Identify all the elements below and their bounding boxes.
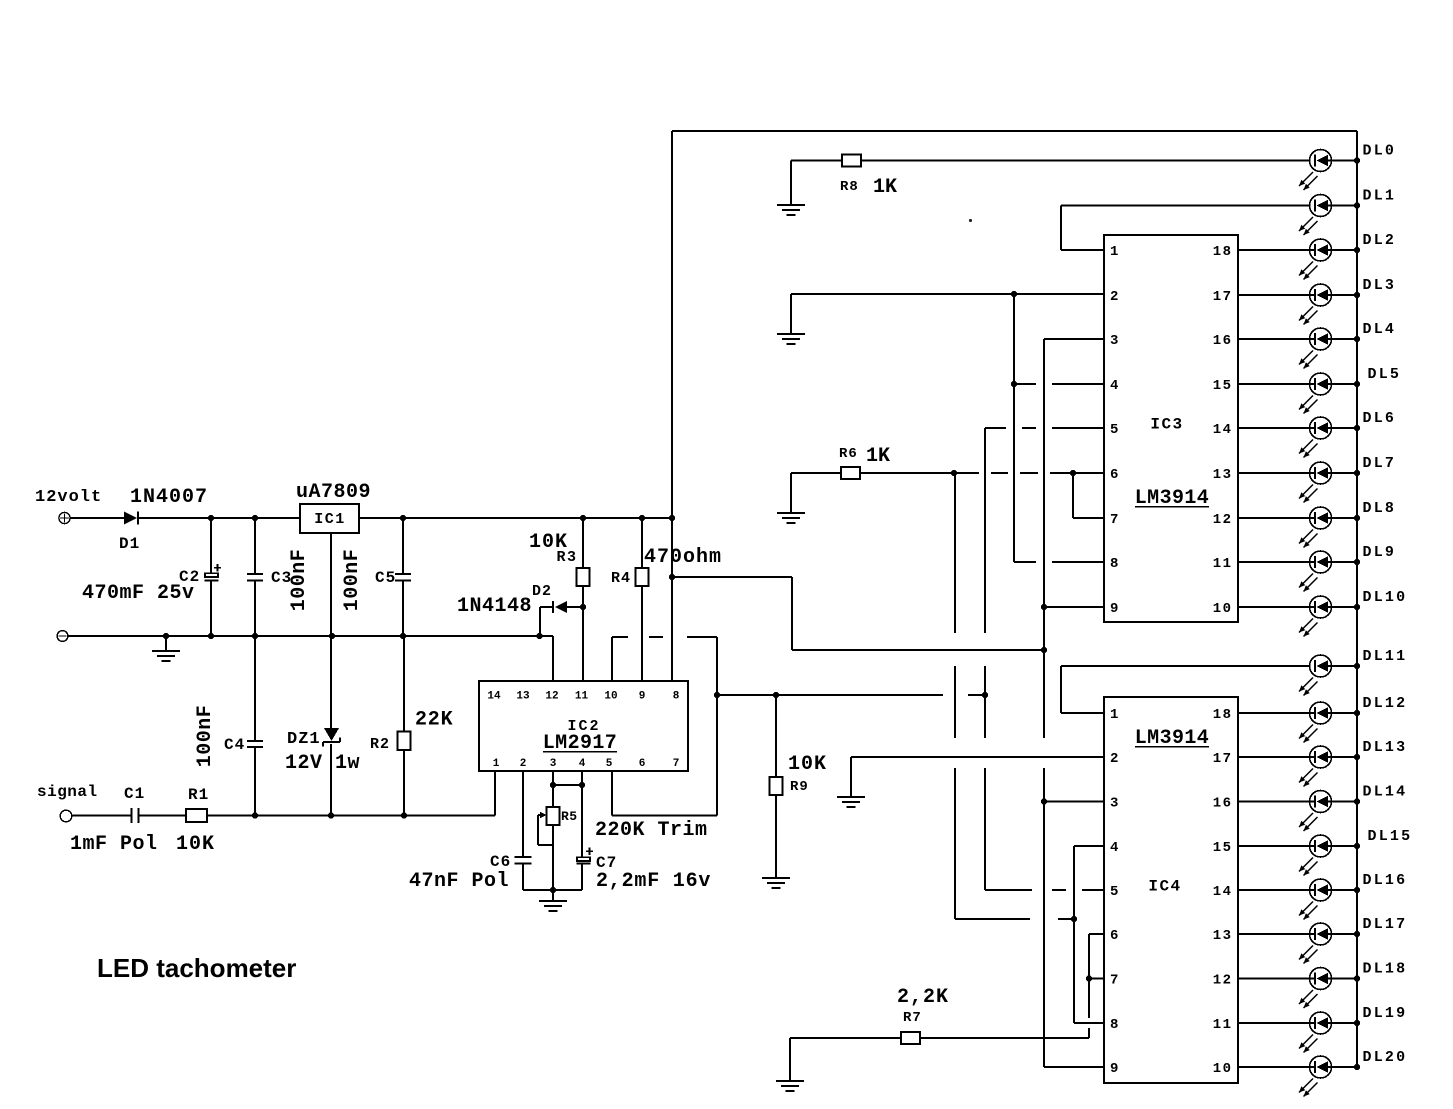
LED DL18 [1238,961,1407,1009]
svg-text:9: 9 [1110,601,1118,617]
zener diode DZ1 12V 1w [330,636,332,728]
svg-text:1N4007: 1N4007 [130,486,208,509]
svg-text:DL0: DL0 [1363,143,1397,160]
wire 0V ground rail [68,635,540,637]
svg-text:1: 1 [1110,707,1118,723]
node: R9 tap on signal wire [773,692,779,698]
svg-text:R9: R9 [790,779,809,795]
svg-text:D2: D2 [532,583,552,600]
svg-text:DL11: DL11 [1363,648,1408,665]
wire IC4 pin 9 (mode) [1044,1066,1104,1068]
capacitor C4 plates [247,741,263,747]
LED DL19 [1238,1005,1407,1053]
IC IC2 LM2917 body [479,681,688,771]
svg-text:3: 3 [550,758,557,770]
svg-text:1N4148: 1N4148 [457,595,532,618]
svg-text:R1: R1 [188,786,209,804]
svg-text:14: 14 [487,691,501,703]
capacitor C3 plates [247,574,263,581]
LED DL0 [1299,143,1396,191]
svg-text:100nF: 100nF [194,705,217,768]
svg-text:IC1: IC1 [314,511,346,528]
svg-text:6: 6 [1110,928,1118,944]
resistor R6 body [841,467,860,479]
wire C1 to R1 [139,815,186,817]
node: IC4 pin 3 junction on supply bus [1041,798,1047,804]
capacitor C2 470mF 25v electrolytic [210,518,212,573]
resistor R7 body [901,1032,920,1044]
svg-text:6: 6 [639,758,646,770]
ground symbol for IC4 pin 2 [837,797,865,807]
svg-text:10: 10 [1213,1061,1233,1077]
wire IC2 pin 12 stub [552,636,554,681]
node: +9V tap to LM3914 supply [669,574,675,580]
LED DL11 [1299,648,1407,696]
terminal 0V input [57,631,68,642]
svg-text:R6: R6 [839,446,858,462]
node: IC3 pin6 bus to IC4 pin4/pin8 junction [1071,916,1077,922]
wire IC4 pin 4 (RLO) [1074,845,1104,847]
svg-text:12: 12 [1213,973,1233,989]
svg-text:DL20: DL20 [1363,1049,1408,1066]
svg-text:12: 12 [545,691,558,703]
wire IC3 pin 1 to DL1 [1061,249,1104,251]
resistor R3 10K [582,518,584,568]
node: junctions on signal rail [252,812,258,818]
wire R8 to DL0 cathode [861,160,1310,162]
wire IC2 pin 3 to pin 4 bridge [553,784,582,786]
svg-text:100nF: 100nF [341,549,364,612]
ground symbol below IC2 filter [539,901,567,911]
capacitor C1 1mF Pol [132,808,139,823]
resistor R8 body [842,155,861,167]
svg-text:100nF: 100nF [288,549,311,612]
svg-text:14: 14 [1213,422,1233,438]
resistor R2 body [398,732,411,751]
svg-text:11: 11 [1213,556,1233,572]
resistor R9 10K [775,695,777,777]
wire R4 to IC2 pin 9 [641,586,643,681]
wire IC1 ground pin to 0V rail [330,533,332,636]
resistor R7 2,2K [789,1038,791,1081]
trimmer R5 body [547,807,560,825]
svg-text:5: 5 [606,758,613,770]
node: signal joins LM3914 input bus [982,692,988,698]
svg-text:DL4: DL4 [1363,321,1397,338]
resistor R2 22K [403,636,405,732]
wire link to IC4 pin4 and pin8 [955,918,1030,920]
svg-text:R5: R5 [561,809,578,824]
svg-text:220K Trim: 220K Trim [595,819,708,842]
ground symbol for IC3 pin 2 [777,334,805,344]
svg-text:signal: signal [37,783,98,801]
svg-text:DL7: DL7 [1363,455,1397,472]
svg-text:DL19: DL19 [1363,1005,1408,1022]
node: IC3 pin 2 junction on ground bus [1011,291,1017,297]
wire IC3 pin 7 to pin 6 [1072,473,1074,518]
wire bus: IC3 pin6 to IC4 pin4/pin8 [954,473,956,633]
wire IC4 pin 7 [1089,978,1104,980]
svg-text:DL3: DL3 [1363,277,1397,294]
svg-text:1: 1 [1110,244,1118,260]
svg-text:DL18: DL18 [1363,961,1408,978]
svg-text:2,2mF 16v: 2,2mF 16v [596,870,711,893]
svg-text:470mF 25v: 470mF 25v [82,582,195,605]
svg-text:DL15: DL15 [1368,828,1413,845]
svg-text:C4: C4 [224,736,245,754]
svg-text:DL5: DL5 [1368,366,1402,383]
regulator IC1 uA7809 [300,504,359,533]
svg-text:DL10: DL10 [1363,589,1408,606]
capacitor C6 plates [515,857,532,864]
svg-text:C5: C5 [375,569,396,587]
svg-text:13: 13 [516,691,530,703]
svg-text:1K: 1K [866,445,890,468]
svg-text:DL1: DL1 [1363,188,1397,205]
wire +9V feed to LM3914 supply bus [672,576,792,578]
svg-text:13: 13 [1213,467,1233,483]
resistor R1 body [186,809,207,822]
wire IC4 pin 1 to DL11 [1061,712,1104,714]
svg-text:10K: 10K [176,833,215,856]
svg-text:11: 11 [1213,1017,1233,1033]
diode D2 1N4148 [540,606,552,608]
terminal +12V input [59,512,70,523]
wire D2 cathode to 0V rail [539,607,541,636]
svg-text:R4: R4 [611,570,631,587]
svg-text:13: 13 [1213,928,1233,944]
svg-text:D1: D1 [119,535,140,553]
svg-text:C1: C1 [124,785,145,803]
wire tach output signal to LM3914 inputs [717,694,943,696]
svg-text:3: 3 [1110,333,1118,349]
svg-text:R2: R2 [370,736,390,753]
svg-text:DZ1: DZ1 [287,730,321,749]
svg-text:2: 2 [1110,289,1118,305]
wire signal terminal to C1 [72,815,131,817]
svg-text:8: 8 [1110,556,1118,572]
node: junctions on 0V rail [163,633,169,639]
svg-text:DL8: DL8 [1363,500,1397,517]
resistor R4 body [636,568,649,586]
LED DL15 [1238,828,1412,876]
capacitor C3 100nF [254,518,256,574]
LED DL5 [1238,366,1401,414]
wire signal rail to IC2 pin 1 [207,815,495,817]
wire IC3 pin 3 (V+) [1044,338,1104,340]
wire ground stub on 0V rail [165,636,167,651]
svg-text:C6: C6 [490,853,511,871]
capacitor C5 100nF [402,518,404,574]
wire IC4 pin 3 (V+) [1044,801,1104,803]
LED DL6 [1238,410,1396,458]
wire LED anode rail vertical [1356,131,1358,1067]
svg-text:15: 15 [1213,840,1233,856]
LED DL14 [1238,784,1407,832]
wire IC1 output +9V rail [359,517,672,519]
wire IC2 pin 10 to pin 5 loop (with crossing gaps) [611,637,613,681]
svg-text:4: 4 [1110,840,1118,856]
wire C6/C7 common to ground [523,889,582,891]
LED DL2 [1238,232,1396,280]
svg-text:10K: 10K [788,753,827,776]
LED DL7 [1238,455,1396,503]
node: D2 anode / R3 / IC2 pin 11 junction [580,604,586,610]
node: IC3 pin 9 junction on +9V bus [1041,604,1047,610]
svg-text:16: 16 [1213,333,1233,349]
svg-text:DL13: DL13 [1363,739,1408,756]
wire IC3 pin 9 (mode) [1044,606,1104,608]
wire 0V rail jog to IC2 pin 12 [540,635,554,637]
wire IC4 pin 6 [1089,933,1104,935]
node: C6/C7 ground junction [550,887,556,893]
node: tach output tap on pin10/pin5 loop [714,692,720,698]
svg-text:11: 11 [575,691,589,703]
svg-text:4: 4 [579,758,586,770]
svg-text:4: 4 [1110,378,1118,394]
svg-text:LED tachometer: LED tachometer [97,953,296,983]
wire IC3 pin 5 (signal in) [985,427,1006,429]
svg-text:DL12: DL12 [1363,695,1408,712]
svg-text:DL17: DL17 [1363,916,1408,933]
capacitor C6 47nF Pol on IC2 pin 2 [522,771,524,857]
capacitor C5 plates [395,574,411,581]
node: IC2 pin 3 junction [550,782,556,788]
svg-text:18: 18 [1213,707,1233,723]
svg-text:17: 17 [1213,751,1233,767]
node: junctions on +12V/+9V rail [208,515,214,521]
svg-text:R8: R8 [840,179,859,195]
svg-text:15: 15 [1213,378,1233,394]
svg-text:2: 2 [520,758,527,770]
svg-text:12: 12 [1213,512,1233,528]
wire bus: +9V to IC3 pin3/pin9 and IC4 pin3/pin9 [1043,339,1045,738]
svg-text:DL6: DL6 [1363,410,1397,427]
svg-text:8: 8 [673,691,680,703]
IC IC3 LM3914 body [1104,235,1238,622]
wire IC4 pin 8 (ref adj) [1074,1022,1104,1024]
svg-text:R3: R3 [557,549,578,566]
node: IC2 pin 4 junction [579,782,585,788]
svg-text:10: 10 [1213,601,1233,617]
svg-text:14: 14 [1213,884,1233,900]
wire D1 cathode to IC1 input (unregulated +12V rail) [139,517,300,519]
LED DL1 [1299,188,1396,236]
svg-text:470ohm: 470ohm [644,546,722,569]
node: IC3 pin 7 junction on pin 6 wire [1070,470,1076,476]
svg-text:1K: 1K [873,176,897,199]
node: R6 / IC3 pin 6 bus junction [951,470,957,476]
resistor R3 body [577,568,590,586]
resistor R9 body [770,777,783,795]
svg-text:12volt: 12volt [35,488,102,507]
stray ink speck (artifact in original) [969,219,972,222]
svg-text:R7: R7 [903,1010,922,1026]
LED DL8 [1238,500,1396,548]
svg-text:8: 8 [1110,1017,1118,1033]
wire IC2 pin 1 stub [494,771,496,816]
trimmer R5 wiper arrow [538,812,547,818]
LED DL16 [1238,872,1407,920]
ground symbol on 0V rail [152,651,180,661]
LED DL9 [1238,544,1396,592]
svg-text:7: 7 [673,758,680,770]
svg-text:9: 9 [1110,1061,1118,1077]
node: IC4 pin 7 junction [1086,975,1092,981]
resistor R8 1K (DL0 feed) [790,161,792,206]
svg-text:12V 1w: 12V 1w [285,752,360,775]
svg-text:IC4: IC4 [1148,878,1181,896]
wire R3 to D2 junction and IC2 pin 11 [582,586,584,681]
svg-text:16: 16 [1213,796,1233,812]
node: IC3 pin 4 junction on ground bus [1011,381,1017,387]
wire bus: signal IC3 pin5 to IC4 pin5 [984,428,986,633]
ground symbol below R8 [777,205,805,215]
wire IC3 pin 2 to ground [790,294,792,334]
wire R7 to IC4 pin6/pin7 [920,1037,1089,1039]
capacitor C4 100nF [254,636,256,741]
svg-text:2,2K: 2,2K [897,986,949,1009]
IC IC4 LM3914 body [1104,697,1238,1083]
svg-text:uA7809: uA7809 [296,481,371,504]
svg-text:9: 9 [639,691,646,703]
wire +9V vertical to IC2 pin 8 and top rail [671,131,673,681]
LED DL10 [1238,589,1407,637]
terminal signal input [60,810,72,822]
resistor R6 1K (IC3 reference) [790,473,792,513]
ground symbol below R7 [776,1081,804,1091]
LED DL17 [1238,916,1407,964]
wire R6 to IC3 pin 6 [860,472,954,474]
svg-text:17: 17 [1213,289,1233,305]
svg-text:3: 3 [1110,796,1118,812]
svg-text:2: 2 [1110,751,1118,767]
capacitor C7 2,2mF 16v electrolytic on IC2 pin 4 [581,771,583,785]
resistor R4 470ohm [641,518,643,568]
LED DL3 [1238,277,1396,325]
svg-text:22K: 22K [415,709,453,732]
svg-text:7: 7 [1110,973,1118,989]
svg-text:6: 6 [1110,467,1118,483]
ground symbol below R6 [777,513,805,523]
svg-text:1mF Pol: 1mF Pol [70,833,158,856]
svg-text:DL2: DL2 [1363,232,1397,249]
svg-text:DL9: DL9 [1363,544,1397,561]
svg-text:5: 5 [1110,884,1118,900]
LED DL13 [1238,739,1407,787]
wire +9V top rail to LED anode rail [672,130,1357,132]
wire IC3 pin 4 (RLO) [1014,383,1036,385]
svg-text:10: 10 [604,691,617,703]
svg-text:DL14: DL14 [1363,784,1408,801]
trimmer R5 220K Trim on IC2 pin 3 [552,771,554,785]
node: +9V feed junction on supply bus [1041,647,1047,653]
svg-text:IC3: IC3 [1150,416,1183,434]
svg-text:5: 5 [1110,422,1118,438]
wire IC4 pin 2 to ground [851,756,1104,758]
LED DL4 [1238,321,1396,369]
svg-text:7: 7 [1110,512,1118,528]
LED DL20 [1238,1049,1407,1097]
diode D1 1N4007 [124,512,138,525]
wire +12V input to D1 anode [71,517,125,519]
LED DL12 [1238,695,1407,743]
svg-text:47nF Pol: 47nF Pol [409,870,509,893]
ground symbol below R9 [762,878,790,888]
svg-text:18: 18 [1213,244,1233,260]
wire IC3 pin 8 (ref adj) [1014,561,1036,563]
svg-text:DL16: DL16 [1363,872,1408,889]
svg-text:1: 1 [493,758,500,770]
wire bus: IC3 pin2/pin4/pin8 ground link [1013,294,1015,562]
wire IC4 pin 5 (signal in) [985,889,1032,891]
